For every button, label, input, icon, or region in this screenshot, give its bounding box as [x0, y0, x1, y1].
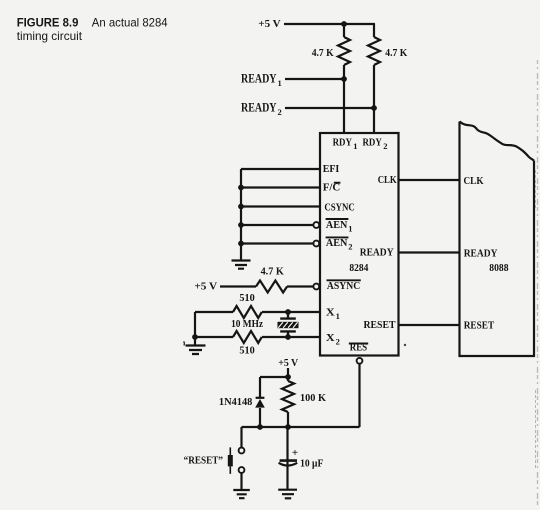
svg-text:AEN: AEN	[326, 237, 348, 249]
svg-text:“RESET”: “RESET”	[184, 454, 223, 466]
svg-text:CLK: CLK	[464, 175, 484, 187]
svg-text:2: 2	[348, 242, 352, 252]
svg-text:RESET: RESET	[464, 320, 495, 332]
svg-text:READY: READY	[464, 247, 498, 259]
svg-text:4.7 K: 4.7 K	[261, 266, 285, 278]
svg-text:1: 1	[336, 311, 340, 321]
svg-text:READY: READY	[360, 246, 394, 258]
svg-text:An actual 8284: An actual 8284	[92, 16, 168, 30]
svg-text:X: X	[326, 332, 335, 344]
svg-text:8088: 8088	[489, 262, 509, 274]
svg-text:510: 510	[239, 292, 255, 304]
svg-text:CLK: CLK	[378, 174, 397, 186]
svg-text:+: +	[292, 447, 299, 459]
svg-text:510: 510	[239, 345, 255, 357]
svg-text:RDY: RDY	[333, 137, 352, 149]
svg-text:1: 1	[278, 78, 282, 88]
svg-text:100 K: 100 K	[300, 392, 326, 404]
svg-text:FIGURE 8.9: FIGURE 8.9	[17, 16, 79, 30]
svg-text:READY: READY	[241, 72, 277, 86]
svg-text:X: X	[326, 307, 335, 319]
svg-text:4.7 K: 4.7 K	[312, 47, 334, 59]
svg-text:2: 2	[383, 141, 387, 151]
svg-text:AEN: AEN	[326, 219, 348, 231]
svg-text:CSYNC: CSYNC	[324, 201, 354, 213]
svg-text:1N4148: 1N4148	[219, 396, 253, 408]
svg-text:ASYNC: ASYNC	[327, 280, 360, 292]
svg-text:10 μF: 10 μF	[300, 457, 323, 469]
svg-text:2: 2	[278, 107, 282, 117]
svg-text:RDY: RDY	[363, 137, 382, 149]
svg-text:1: 1	[353, 141, 357, 151]
svg-text:2: 2	[336, 336, 340, 346]
svg-text:+5 V: +5 V	[258, 18, 280, 30]
svg-text:+5 V: +5 V	[278, 357, 298, 369]
svg-text:READY: READY	[241, 101, 277, 115]
svg-text:RESET: RESET	[364, 319, 397, 331]
svg-text:1: 1	[348, 223, 352, 233]
svg-text:+5 V: +5 V	[194, 281, 217, 293]
svg-text:8284: 8284	[349, 262, 368, 274]
svg-text:EFI: EFI	[323, 163, 340, 175]
svg-text:4.7 K: 4.7 K	[385, 47, 407, 59]
svg-text:timing circuit: timing circuit	[17, 29, 83, 43]
